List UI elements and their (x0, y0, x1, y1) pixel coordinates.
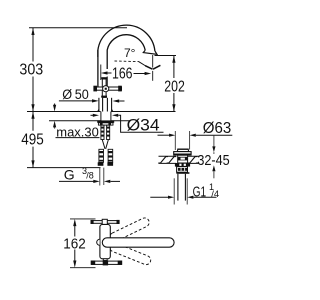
body left bump (97, 239, 100, 245)
deck band right of drain (187, 155, 213, 157)
wire 166 left extension (100, 65, 102, 81)
handle X2 top bar (92, 221, 119, 224)
drain lock nut (177, 167, 188, 173)
faucet body column (99, 98, 112, 112)
hose left end cap (98, 162, 104, 166)
node diameter 63 dimension (158, 134, 171, 136)
wire deck top line left (27, 111, 101, 113)
drain flange lip (175, 163, 190, 167)
node G114 dimension arrows (150, 196, 169, 198)
svg-text:32-45: 32-45 (197, 152, 229, 169)
faucet base flare (98, 109, 99, 111)
wire G38 right extension (103, 168, 105, 185)
deck hatch left (158, 157, 168, 163)
hose right (108, 149, 113, 162)
wire 162 top extension (70, 218, 96, 220)
svg-text:Ø 50: Ø 50 (62, 87, 89, 102)
drain tail pipe (177, 174, 179, 201)
drain plug neck (178, 155, 188, 163)
node 202 top arrow (172, 56, 175, 63)
handle X1 horizontal bar (94, 87, 122, 90)
svg-text:7°: 7° (124, 46, 136, 60)
wire G114 left extension (173, 178, 175, 204)
wire riser left edge (97, 50, 99, 87)
svg-text:G: G (64, 167, 75, 183)
handle X2 bottom bar (92, 261, 122, 264)
node 32-45 dimension (213, 135, 215, 147)
svg-text:495: 495 (21, 132, 44, 149)
svg-text:166: 166 (112, 66, 133, 83)
spout swivel lower dashed (108, 241, 152, 266)
handle X1 bottom cap (101, 96, 107, 98)
deck band left of drain (159, 155, 177, 157)
drain dome top disc (177, 149, 188, 152)
wire bottom reference line (27, 167, 101, 169)
node 166 right arrow (145, 72, 152, 75)
node diameter 50 right arrow (113, 99, 120, 102)
wire deck bottom line right (111, 120, 130, 122)
handle X1 cross top cap (101, 77, 107, 79)
wire top extension line (29, 27, 127, 29)
handle X1 hub (103, 86, 109, 92)
drain nut base band (176, 172, 189, 174)
svg-text:Ø34: Ø34 (127, 116, 160, 134)
wire 162 bottom extension (70, 267, 96, 269)
node max30 top arrow (53, 105, 56, 112)
node 303 top arrow (31, 28, 34, 35)
wire G114 right extension (186, 178, 188, 204)
svg-text:303: 303 (19, 61, 43, 78)
handle X1 left cap (93, 86, 97, 92)
node 166 left arrow (101, 71, 108, 74)
node 162 dimension line (74, 226, 76, 237)
node 495 top arrow (31, 112, 34, 119)
stud left (101, 125, 104, 139)
handle X2 bottom neck (103, 259, 107, 261)
spout arch inner (107, 35, 145, 69)
spout outlet mouth (143, 50, 157, 54)
node 7deg chevron arrow (145, 65, 160, 69)
node 495 bottom arrow (31, 160, 34, 167)
wire 7deg dashed reference (115, 60, 140, 63)
handle X1 right cap (118, 86, 122, 92)
stud right (107, 125, 110, 139)
wire 202 dimension line (173, 56, 175, 79)
wire outlet extension line (152, 55, 154, 68)
spout arch outer (98, 25, 155, 57)
svg-text:202: 202 (164, 78, 185, 95)
node diameter 34 left arrow (91, 114, 95, 116)
faucet shank through deck (100, 112, 102, 121)
wire max30 top arrow line (54, 104, 56, 106)
node 303 bottom arrow (31, 104, 34, 111)
body top view (100, 224, 110, 258)
hose right end cap (107, 162, 113, 166)
svg-text:Ø63: Ø63 (203, 120, 232, 137)
svg-text:162: 162 (63, 237, 86, 253)
node 32-45 label (199, 154, 232, 166)
hose left (99, 149, 104, 162)
wire 202 top extension (155, 55, 177, 57)
drain dome rim (174, 152, 191, 155)
svg-text:/8: /8 (86, 171, 94, 181)
faucet mounting flange (97, 120, 114, 122)
node max30 bottom arrow (53, 121, 56, 128)
deck hatch right (188, 157, 198, 163)
wire drain dome right extension (189, 131, 191, 150)
svg-text:G1: G1 (193, 183, 207, 200)
wire drain dome left extension (174, 131, 176, 150)
wire riser inner lower segment (106, 77, 108, 87)
node 202 bottom arrow (172, 104, 175, 111)
hose pinch (102, 140, 105, 149)
spout swivel upper dashed (108, 216, 151, 243)
wire G38 left extension (99, 168, 101, 186)
svg-text:/4: /4 (211, 189, 219, 200)
node diameter 34 right arrow (112, 114, 118, 117)
wire deck top line right (111, 111, 175, 113)
handle X1 vertical arm (102, 79, 106, 97)
wire max30 bottom arrow tail (54, 128, 56, 129)
wire 7deg leader line (139, 62, 146, 66)
spout pill solid (102, 238, 174, 247)
wire deck bottom line left (49, 120, 101, 122)
wire 303/495 dimension line (32, 28, 34, 62)
